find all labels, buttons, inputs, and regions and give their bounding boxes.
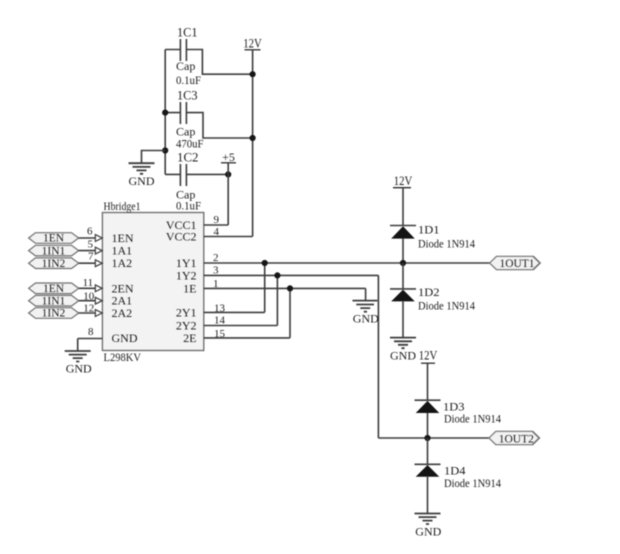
- junction: GND tap on bus: [162, 147, 168, 153]
- svg-text:1IN1: 1IN1: [42, 245, 66, 257]
- svg-text:Diode 1N914: Diode 1N914: [444, 412, 501, 426]
- svg-text:1C2: 1C2: [177, 151, 199, 165]
- svg-text:Hbridge1: Hbridge1: [104, 201, 141, 213]
- svg-text:470uF: 470uF: [176, 137, 204, 151]
- svg-text:GND: GND: [415, 524, 441, 538]
- power +5: [221, 150, 236, 225]
- svg-text:1C3: 1C3: [177, 89, 198, 103]
- svg-text:Cap: Cap: [176, 59, 195, 73]
- svg-text:10: 10: [83, 290, 95, 302]
- ground GND (below D4): [415, 514, 442, 539]
- wire port 1EN to pin 11: [79, 277, 103, 292]
- diode D4: [415, 438, 502, 513]
- svg-text:2A2: 2A2: [112, 306, 133, 320]
- svg-text:5: 5: [88, 239, 94, 251]
- pin 8 wire GND: [78, 326, 103, 351]
- wire port 1IN1 to pin 5: [79, 239, 103, 254]
- svg-text:GND: GND: [66, 361, 92, 375]
- svg-text:1Y2: 1Y2: [176, 268, 197, 282]
- svg-text:1OUT1: 1OUT1: [500, 258, 535, 270]
- ground GND (1E net): [353, 301, 380, 326]
- svg-text:3: 3: [213, 265, 219, 277]
- svg-text:1EN: 1EN: [43, 233, 65, 245]
- port 1IN1 (lower): [29, 295, 79, 307]
- junction: C1 to 12V rail: [250, 71, 256, 77]
- svg-text:1: 1: [213, 278, 219, 290]
- wire port 1EN to pin 6: [79, 225, 103, 241]
- svg-text:12V: 12V: [394, 174, 413, 188]
- capacitor C2: [165, 151, 228, 213]
- ground GND (pin 8): [65, 351, 92, 375]
- wire port 1IN1 to pin 10: [79, 290, 103, 304]
- svg-text:6: 6: [87, 225, 93, 237]
- svg-text:15: 15: [214, 328, 226, 340]
- port 1OUT2: [489, 431, 540, 445]
- wire port 1IN2 to pin 7: [79, 251, 103, 267]
- svg-text:4: 4: [214, 226, 220, 238]
- pin 3 wire 1Y2: [204, 265, 379, 439]
- svg-text:+5: +5: [222, 150, 235, 164]
- svg-text:GND: GND: [353, 312, 379, 326]
- svg-text:0.1uF: 0.1uF: [176, 199, 201, 213]
- junction: D3/D4 on 1OUT2 net: [424, 435, 430, 441]
- ground GND (capacitors): [129, 163, 155, 188]
- power 12V (over D3): [419, 349, 438, 401]
- pin 15 wire 2E: [204, 288, 290, 340]
- svg-text:VCC2: VCC2: [166, 230, 197, 244]
- junction: C3 left lead on bus: [162, 110, 168, 116]
- port 1IN1 (upper): [29, 245, 79, 257]
- svg-text:1C1: 1C1: [177, 26, 198, 40]
- junction: 1Y1/2Y1: [262, 260, 268, 266]
- svg-text:1D1: 1D1: [418, 223, 440, 237]
- svg-text:1E: 1E: [183, 281, 196, 295]
- svg-text:1OUT2: 1OUT2: [499, 434, 534, 446]
- svg-text:1IN2: 1IN2: [42, 258, 66, 270]
- svg-text:8: 8: [88, 326, 94, 338]
- svg-text:GND: GND: [112, 331, 138, 345]
- diode D3: [415, 400, 502, 439]
- svg-text:1A2: 1A2: [112, 256, 133, 270]
- junction: 1Y2/2Y2: [274, 272, 280, 278]
- power 12V (top): [243, 37, 262, 237]
- diode D1: [390, 223, 475, 263]
- svg-text:1EN: 1EN: [43, 283, 65, 295]
- junction: D1/D2 on 1OUT1 net: [400, 260, 406, 266]
- junction: 1E/2E: [287, 285, 293, 291]
- wire: bus to ground: [142, 151, 166, 164]
- svg-text:Diode 1N914: Diode 1N914: [418, 237, 475, 251]
- svg-text:GND: GND: [390, 349, 416, 363]
- svg-text:Diode 1N914: Diode 1N914: [444, 476, 501, 490]
- svg-text:2Y1: 2Y1: [176, 305, 197, 319]
- svg-text:2E: 2E: [183, 331, 196, 345]
- svg-text:14: 14: [214, 315, 226, 327]
- power 12V (over D1): [393, 174, 412, 226]
- junction: C2 to +5 rail: [225, 171, 231, 177]
- svg-text:Diode 1N914: Diode 1N914: [418, 299, 475, 313]
- diode D2: [390, 263, 475, 337]
- pin 4 wire VCC2: [204, 226, 253, 238]
- port 1OUT1: [490, 256, 541, 270]
- svg-text:GND: GND: [129, 174, 155, 188]
- svg-text:12: 12: [83, 303, 94, 315]
- pin 2 wire 1Y1 to 1OUT1: [204, 252, 490, 264]
- op-amp U1 Hbridge1 body: [102, 201, 203, 364]
- junction: C3 to 12V rail: [250, 135, 256, 141]
- svg-text:2: 2: [213, 252, 219, 264]
- svg-text:7: 7: [88, 251, 94, 263]
- svg-text:0.1uF: 0.1uF: [176, 73, 201, 87]
- wire: capacitor left bus: [164, 50, 166, 175]
- pin 14 wire 2Y2: [204, 275, 278, 326]
- port 1IN2 (lower): [29, 308, 79, 320]
- svg-text:13: 13: [214, 302, 226, 314]
- capacitor C1: [165, 26, 252, 88]
- svg-text:1IN1: 1IN1: [42, 295, 66, 307]
- svg-text:12V: 12V: [419, 349, 438, 363]
- svg-text:11: 11: [83, 277, 94, 289]
- pin 13 wire 2Y1: [204, 263, 265, 314]
- port 1EN (upper): [29, 233, 79, 245]
- svg-text:L298KV: L298KV: [104, 352, 142, 364]
- capacitor C3: [165, 89, 252, 151]
- wire port 1IN2 to pin 12: [79, 303, 103, 317]
- svg-text:12V: 12V: [243, 37, 262, 51]
- wire: 1Y2 net to 1OUT2: [378, 437, 489, 439]
- svg-text:1D2: 1D2: [418, 285, 440, 299]
- pin 9 wire VCC1: [204, 214, 228, 226]
- svg-text:9: 9: [214, 214, 220, 226]
- port 1IN2 (upper): [29, 258, 79, 270]
- svg-text:1IN2: 1IN2: [42, 308, 66, 320]
- ground GND (below D2): [390, 338, 416, 363]
- pin 1 wire 1E: [204, 278, 366, 300]
- port 1EN (lower): [29, 283, 79, 295]
